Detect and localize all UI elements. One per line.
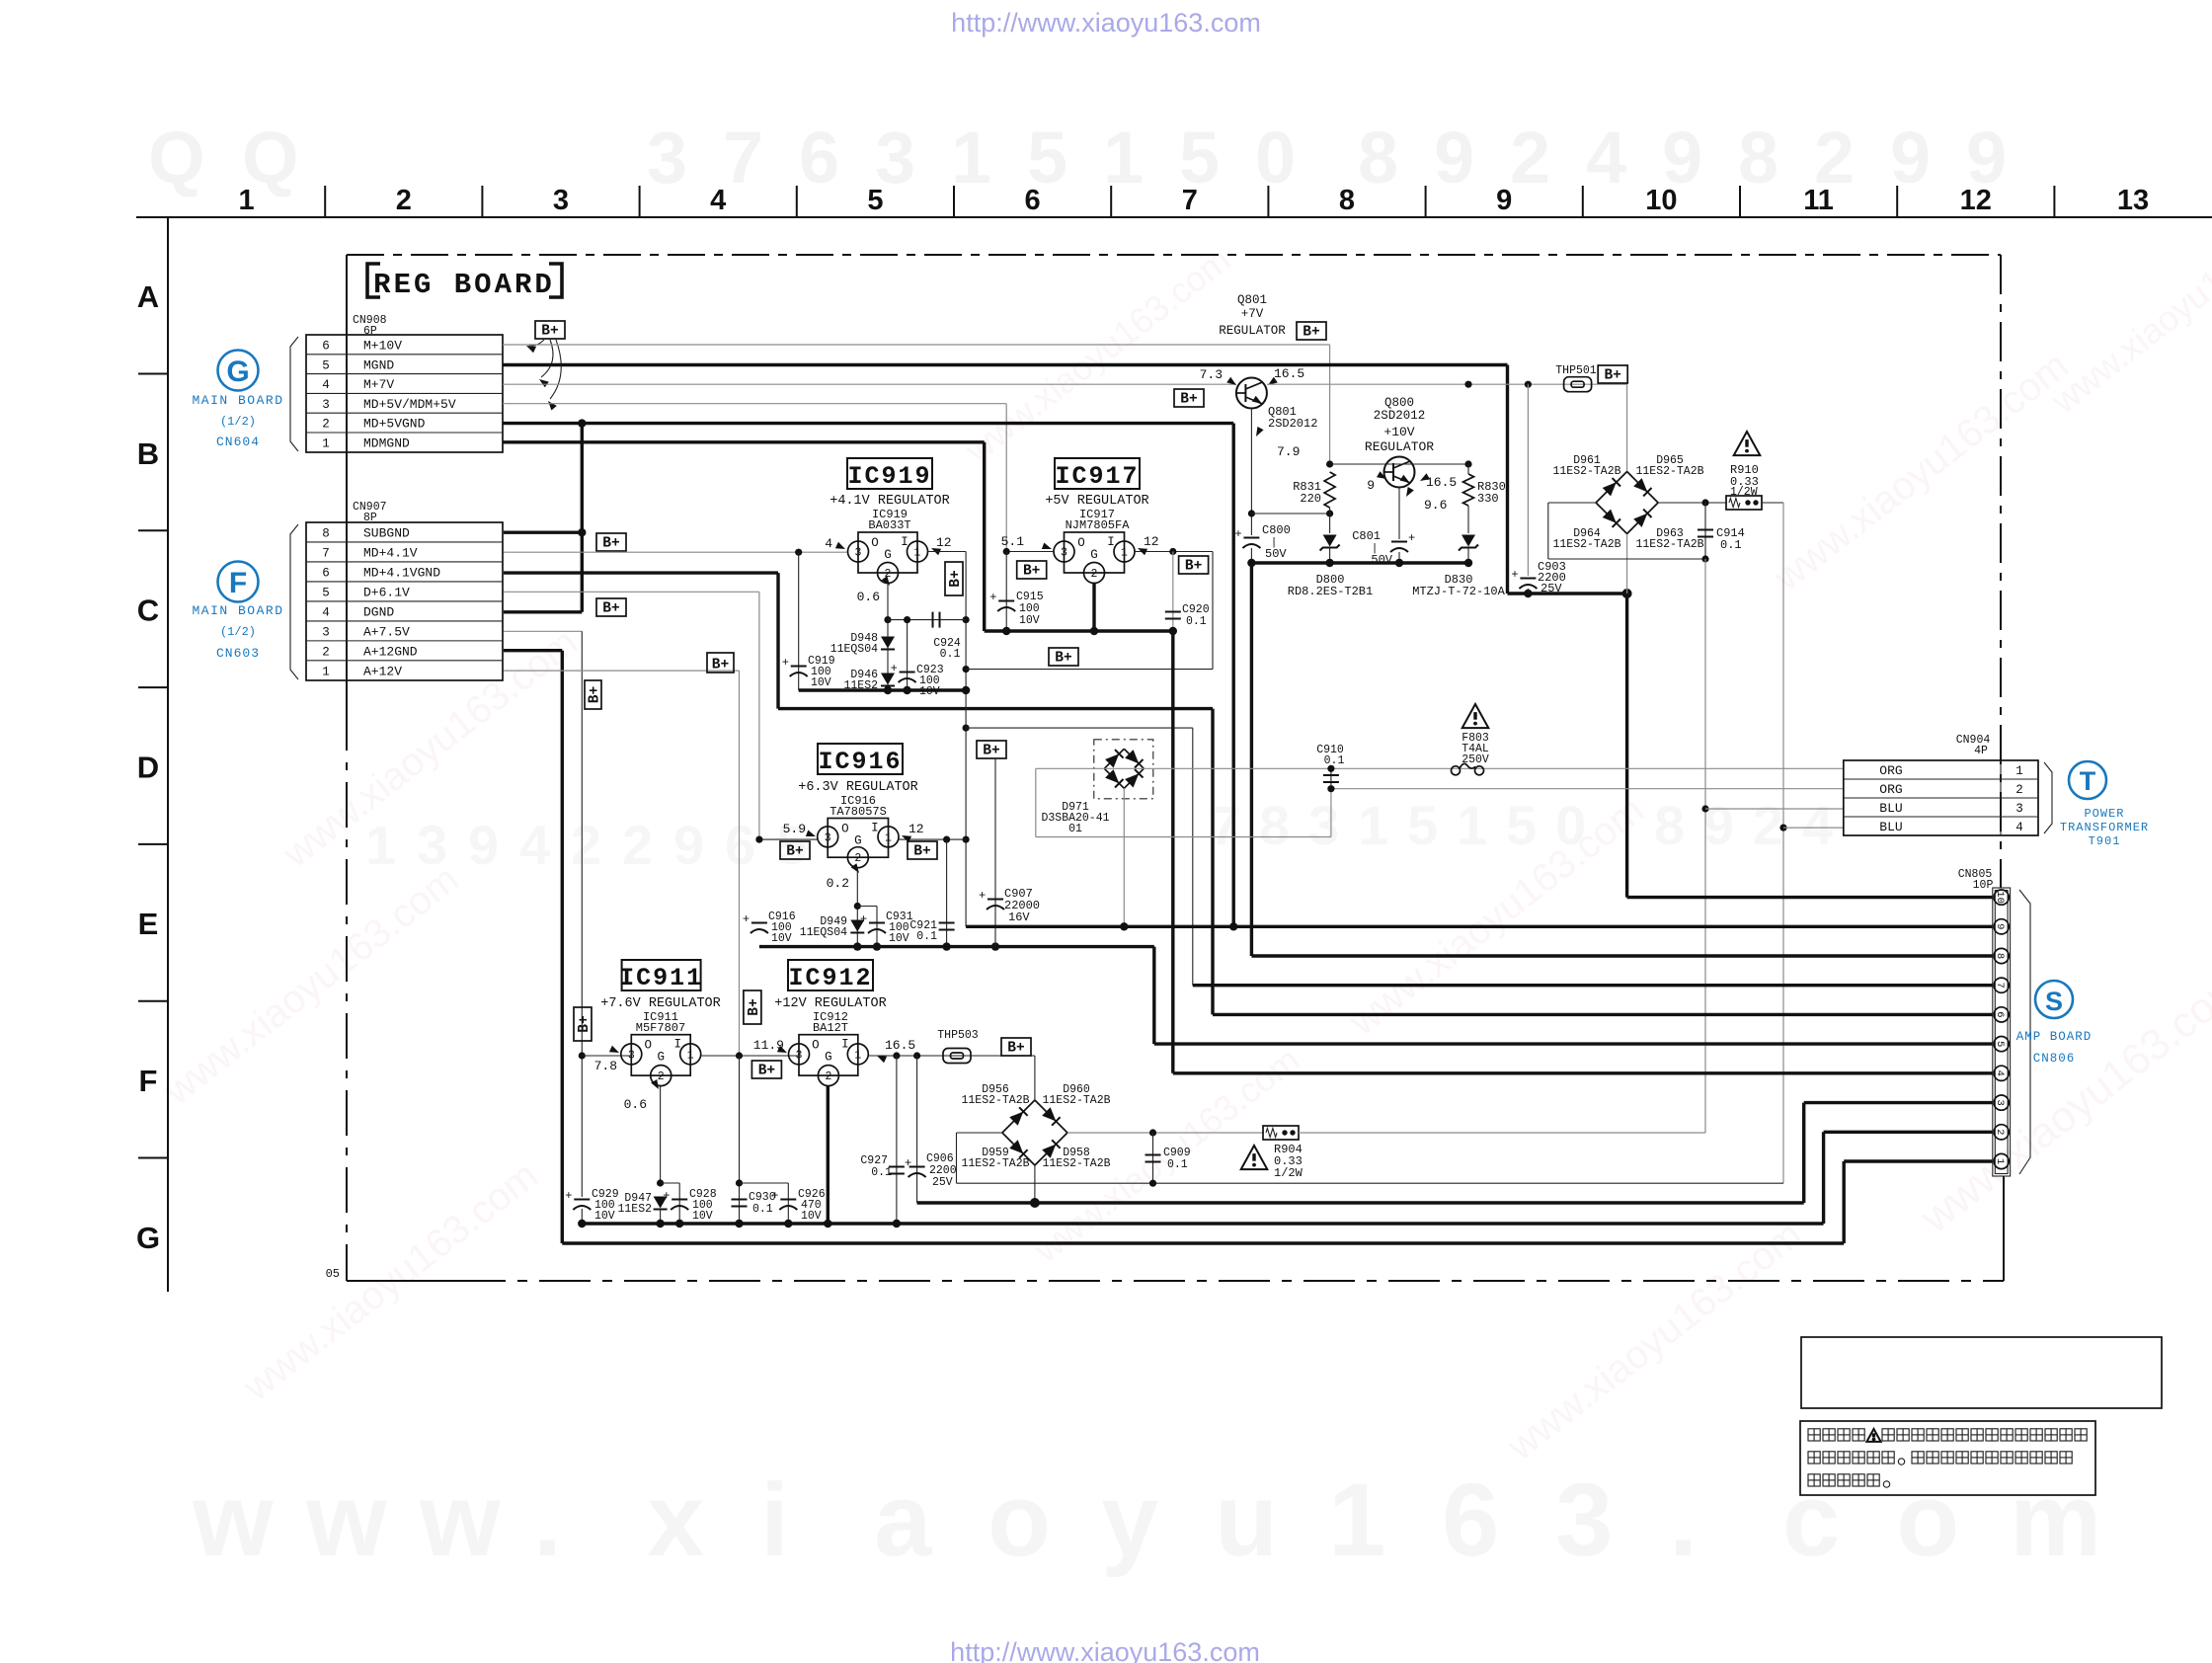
regulator IC919 block: [858, 532, 917, 573]
svg-text:7: 7: [1994, 983, 2006, 989]
svg-text:3: 3: [322, 626, 330, 640]
Q801 emitter net riser to pin8: [1250, 563, 1253, 956]
svg-text:MDMGND: MDMGND: [363, 436, 410, 451]
svg-text:REGULATOR: REGULATOR: [1219, 324, 1286, 338]
warning mark at F803: [1462, 704, 1489, 728]
svg-text:1: 1: [322, 437, 330, 451]
svg-text:B+: B+: [541, 324, 558, 340]
capacitor C800: [1243, 537, 1259, 539]
B+ label mid loop: [1049, 648, 1078, 666]
svg-text:6: 6: [1442, 1463, 1499, 1578]
svg-text:B+: B+: [1023, 564, 1040, 580]
svg-text:SUBGND: SUBGND: [363, 526, 410, 541]
svg-text:8: 8: [1994, 953, 2006, 959]
arrows from B+ label to wires: [528, 340, 544, 346]
svg-text:BA12T: BA12T: [813, 1021, 848, 1035]
Q800 emitter with C801: [1398, 488, 1400, 540]
GND line to pin6 net: [778, 707, 1213, 710]
svg-text:THP503: THP503: [937, 1029, 979, 1042]
B+ label left of IC917: [1017, 561, 1047, 579]
svg-text:0.2: 0.2: [827, 876, 849, 891]
wire A+12GND drop to bus C: [561, 651, 564, 1243]
svg-text:1: 1: [239, 185, 255, 216]
svg-text:I: I: [1107, 535, 1115, 549]
bridge rectifier D956 D960 D959 D958: [1002, 1100, 1035, 1133]
svg-text:0.1: 0.1: [916, 930, 937, 943]
ruler left line: [167, 217, 169, 1292]
svg-text:2: 2: [322, 418, 330, 432]
svg-text:1/2W: 1/2W: [1730, 486, 1758, 499]
capacitor C924: [932, 612, 934, 628]
svg-text:3: 3: [825, 831, 831, 844]
svg-text:2: 2: [1091, 568, 1098, 581]
svg-text:MGND: MGND: [363, 357, 394, 372]
svg-text:7.9: 7.9: [1277, 444, 1300, 459]
bus B ground: [582, 1222, 1823, 1225]
safety note chinese text line3: [1808, 1474, 1820, 1486]
safety note chinese text line2: [1808, 1452, 1820, 1464]
svg-text:A+12GND: A+12GND: [363, 645, 418, 660]
wire DGND: [504, 610, 582, 613]
decorative faint digits middle: [365, 794, 1833, 876]
IC919 pin2 wire: [887, 584, 889, 691]
IC919 ground bus: [799, 688, 966, 691]
svg-text:9.6: 9.6: [1424, 498, 1447, 513]
connector CN904 bracket: [2044, 762, 2052, 833]
svg-text:5: 5: [867, 185, 883, 216]
svg-text:+6.3V REGULATOR: +6.3V REGULATOR: [798, 780, 918, 795]
wire BLU3 row: [1705, 808, 1844, 810]
svg-text:+: +: [1408, 531, 1415, 545]
capacitor C931: [857, 906, 877, 908]
wire MD+5V: [503, 403, 1006, 405]
svg-text:11ES2-TA2B: 11ES2-TA2B: [1635, 465, 1703, 478]
svg-text:MTZJ-T-72-10A: MTZJ-T-72-10A: [1412, 585, 1505, 598]
fusible resistor R904: [1263, 1126, 1299, 1140]
wire D+6.1V: [504, 591, 759, 593]
riser x1727 C914 to D956 box line: [1704, 559, 1706, 1133]
REG BOARD border bottom dash-dot: [347, 1280, 454, 1282]
svg-text:+: +: [860, 912, 867, 926]
svg-text:(1/2): (1/2): [220, 625, 256, 639]
svg-text:+: +: [905, 1156, 911, 1170]
svg-text:2: 2: [322, 646, 330, 660]
capacitor C919: [798, 552, 800, 690]
svg-text:CN806: CN806: [2033, 1052, 2076, 1066]
wire MD+5V drop to IC917 input: [1005, 404, 1007, 552]
Q800 local ground bus: [1251, 561, 1468, 564]
svg-text:M+7V: M+7V: [363, 377, 394, 392]
wire MDMGND: [503, 440, 985, 443]
wire to CN805 pin1 from bus C: [1844, 1159, 1993, 1162]
svg-text:E: E: [138, 907, 159, 941]
D971 output drop to pin9 row: [1123, 788, 1125, 926]
wire MGND drop: [1506, 365, 1509, 594]
svg-text:+7.6V REGULATOR: +7.6V REGULATOR: [600, 996, 721, 1011]
svg-text:4: 4: [1586, 117, 1626, 198]
ruler top line: [136, 216, 2212, 218]
svg-text:2: 2: [2015, 783, 2023, 797]
svg-text:BA033T: BA033T: [868, 518, 910, 532]
wire THP501 to bridge D961: [1626, 384, 1628, 471]
svg-text:O: O: [644, 1039, 652, 1053]
svg-text:10: 10: [1645, 185, 1677, 216]
wire to CN805 pin10: [1627, 896, 1993, 899]
svg-text:2: 2: [854, 852, 861, 865]
svg-text:1: 1: [1457, 794, 1487, 856]
svg-text:F: F: [229, 567, 247, 599]
ruler row ticks: [138, 373, 168, 375]
wire to CN805 pin9: [966, 925, 1993, 928]
svg-text:A+7.5V: A+7.5V: [363, 625, 410, 640]
svg-text:BLU: BLU: [1879, 801, 1902, 816]
svg-text:9: 9: [1994, 923, 2006, 929]
wire BLU4 row: [1783, 827, 1844, 829]
svg-text:1: 1: [2015, 764, 2023, 778]
svg-text:MD+5VGND: MD+5VGND: [363, 417, 426, 432]
svg-text:6: 6: [1025, 185, 1041, 216]
wire to CN805 pin5: [1154, 1042, 1993, 1045]
connector CN805 body: [1993, 888, 2011, 1176]
svg-text:5: 5: [1407, 794, 1438, 856]
svg-text:u: u: [1215, 1463, 1278, 1578]
svg-text:O: O: [841, 823, 849, 836]
B+ label near CN908: [535, 321, 565, 339]
svg-text:12: 12: [908, 822, 924, 836]
svg-text:1: 1: [687, 1049, 694, 1062]
transistor Q801: [1236, 378, 1267, 409]
svg-text:1: 1: [914, 547, 921, 560]
wire MD+4.1VGND drop: [776, 573, 779, 709]
B+ label left of Q801: [1174, 389, 1204, 407]
svg-text:IC919: IC919: [847, 462, 931, 491]
IC916 gnd jog to pin5 net: [1152, 947, 1155, 1045]
svg-text:4: 4: [519, 814, 550, 876]
wire MDMGND drop: [983, 442, 986, 631]
bus C: [562, 1241, 1844, 1244]
IC912 title box: [788, 960, 873, 990]
B+ vertical label left of IC912: [744, 990, 761, 1024]
IC919 title box: [847, 458, 932, 489]
svg-text:G: G: [136, 1221, 160, 1255]
svg-text:12: 12: [936, 535, 952, 550]
svg-text:1: 1: [951, 117, 991, 198]
IC917 gnd riser to pin4 net: [1171, 631, 1174, 1073]
decorative pink diagonal watermarks: [156, 190, 2212, 1469]
svg-text:9: 9: [1890, 117, 1931, 198]
svg-text:10V: 10V: [1019, 614, 1040, 627]
capacitor C910: [1330, 768, 1332, 788]
svg-text:5.9: 5.9: [783, 822, 806, 836]
svg-text:+: +: [782, 656, 789, 670]
svg-text:http://www.xiaoyu163.com: http://www.xiaoyu163.com: [950, 1637, 1260, 1663]
svg-text:1: 1: [1358, 794, 1388, 856]
svg-text:A: A: [137, 279, 159, 314]
svg-text:11EQS04: 11EQS04: [800, 926, 847, 939]
svg-text:2: 2: [658, 1070, 665, 1083]
svg-text:w: w: [192, 1463, 274, 1578]
svg-text:MAIN BOARD: MAIN BOARD: [192, 393, 283, 408]
svg-text:8: 8: [1738, 117, 1778, 198]
IC911 to IC912 wire: [701, 1055, 799, 1057]
B+ label after THP501: [1598, 365, 1627, 383]
IC916 title box: [818, 744, 903, 774]
svg-text:50V: 50V: [1265, 547, 1287, 561]
svg-text:+: +: [1511, 568, 1518, 582]
svg-text:B: B: [137, 436, 159, 471]
wire to CN805 pin7: [1193, 984, 1993, 987]
svg-text:12: 12: [1960, 185, 1992, 216]
svg-text:0.1: 0.1: [871, 1166, 892, 1179]
diode D947: [654, 1197, 668, 1209]
svg-text:7.3: 7.3: [1200, 367, 1223, 382]
svg-text:1: 1: [1328, 1463, 1385, 1578]
bridge D956 bottom to bus A: [1034, 1165, 1036, 1203]
svg-text:B+: B+: [1303, 325, 1319, 341]
B+ label right of IC917: [1179, 556, 1209, 574]
wire to CN805 pin2 from bus B: [1824, 1131, 1993, 1134]
svg-text:0.6: 0.6: [624, 1097, 647, 1112]
REG BOARD border top dash-dot: [347, 254, 2001, 256]
B+ vertical label on riser: [585, 680, 601, 709]
IC912 output wire: [868, 1055, 1035, 1057]
svg-text:0.1: 0.1: [752, 1203, 773, 1216]
svg-text:C800: C800: [1262, 523, 1291, 537]
svg-text:8: 8: [322, 527, 330, 541]
decorative faint digits top: [148, 117, 2007, 198]
wire MD+5VGND drop to pin9 net: [1231, 424, 1234, 927]
svg-text:9: 9: [1367, 478, 1375, 493]
regulator IC917 block: [1065, 532, 1125, 573]
svg-text:3: 3: [855, 547, 862, 560]
bridge D971 dash-dot outline: [1094, 740, 1153, 799]
svg-text:m: m: [2010, 1463, 2101, 1578]
svg-text:2SD2012: 2SD2012: [1268, 417, 1317, 431]
svg-text:G: G: [226, 356, 249, 388]
svg-text:9: 9: [468, 814, 499, 876]
svg-text:1: 1: [322, 666, 330, 679]
wire to CN805 pin3 from bus A: [1804, 1101, 1993, 1104]
svg-text:2: 2: [1994, 1129, 2006, 1135]
svg-text:POWER: POWER: [2084, 807, 2124, 821]
svg-text:1: 1: [365, 814, 396, 876]
bridge AC loop wires: [1548, 502, 1596, 504]
svg-text:G: G: [884, 548, 892, 562]
svg-text:+: +: [1234, 527, 1241, 541]
svg-text:9: 9: [673, 814, 704, 876]
capacitor C906: [916, 1056, 918, 1203]
wire to CN805 pin8: [1251, 954, 1992, 957]
svg-text:A+12V: A+12V: [363, 665, 402, 679]
IC911 input wire: [582, 1055, 630, 1057]
svg-text:10: 10: [1994, 891, 2006, 904]
svg-text:DGND: DGND: [363, 605, 394, 620]
svg-text:0.1: 0.1: [1167, 1158, 1188, 1171]
svg-text:B+: B+: [983, 744, 999, 759]
svg-text:6: 6: [799, 117, 839, 198]
svg-text:B+: B+: [747, 998, 762, 1015]
capacitor C916: [751, 922, 767, 924]
wire A+12V: [504, 670, 740, 672]
wire M+10V drop: [1329, 345, 1331, 464]
REG BOARD border right dash-dot: [2000, 255, 2002, 888]
wire D+6.1V drop to IC916 input: [758, 592, 760, 839]
capacitor C926: [736, 1179, 743, 1186]
svg-text:16.5: 16.5: [885, 1038, 915, 1053]
IC916 pin2 wire: [856, 868, 858, 947]
connector CN904 box: [1844, 760, 2038, 835]
svg-text:0.1: 0.1: [940, 648, 961, 661]
svg-text:MD+5V/MDM+5V: MD+5V/MDM+5V: [363, 397, 456, 412]
B+ label right of THP503: [1001, 1038, 1031, 1056]
svg-text:3: 3: [1061, 547, 1067, 560]
bus A: [917, 1201, 1804, 1204]
svg-text:4: 4: [825, 536, 832, 551]
warning mark at R910: [1734, 432, 1761, 455]
svg-text:10V: 10V: [771, 932, 792, 945]
diode D949: [850, 920, 864, 932]
svg-text:i: i: [760, 1463, 789, 1578]
capacitor C915: [1005, 552, 1007, 632]
line to pin7 net: [966, 727, 1193, 729]
svg-text:C801: C801: [1352, 529, 1381, 543]
wire MD+4.1V to IC919: [504, 551, 848, 553]
svg-text:3: 3: [1308, 794, 1339, 856]
svg-text:4P: 4P: [1974, 745, 1988, 757]
svg-text:AMP BOARD: AMP BOARD: [2016, 1030, 2093, 1044]
IC916 input wire: [759, 838, 818, 840]
svg-text:I: I: [673, 1038, 681, 1052]
svg-text:M5F7807: M5F7807: [636, 1021, 685, 1035]
svg-text:B+: B+: [1055, 651, 1071, 667]
wire MD+4.1VGND: [504, 571, 778, 574]
svg-text:IC917: IC917: [1055, 462, 1139, 491]
safety note chinese text line1: [1808, 1429, 1820, 1441]
IC911 title box: [622, 960, 701, 990]
svg-text:REGULATOR: REGULATOR: [1365, 439, 1434, 454]
svg-text:8: 8: [1358, 117, 1398, 198]
svg-text:01: 01: [1068, 823, 1082, 835]
svg-text:2: 2: [571, 814, 601, 876]
GND riser x589: [581, 424, 584, 612]
svg-text:5: 5: [322, 587, 330, 600]
svg-text:REG BOARD: REG BOARD: [373, 269, 555, 301]
IC912 pin2 wire thick: [827, 1086, 829, 1224]
svg-text:3: 3: [1994, 1099, 2006, 1105]
svg-text:T901: T901: [2089, 834, 2121, 848]
svg-text:10V: 10V: [811, 676, 831, 689]
B+ label at SUBGND junction: [596, 533, 626, 551]
capacitor C907: [994, 758, 996, 947]
svg-text:+12V REGULATOR: +12V REGULATOR: [774, 996, 886, 1011]
svg-text:9: 9: [1496, 185, 1512, 216]
svg-text:CN604: CN604: [216, 435, 260, 449]
safety note box: [1800, 1421, 2095, 1495]
svg-text:NJM7805FA: NJM7805FA: [1066, 518, 1131, 532]
MGND net riser to pin10: [1625, 594, 1628, 898]
svg-text:x: x: [647, 1463, 704, 1578]
svg-text:4: 4: [322, 378, 330, 392]
IC917 input wire: [1006, 551, 1054, 553]
svg-text:B+: B+: [1604, 368, 1620, 384]
capacitor C903: [1527, 384, 1529, 576]
wire MGND: [503, 363, 1508, 366]
svg-text:11ES2-TA2B: 11ES2-TA2B: [1552, 538, 1620, 551]
svg-text:11ES2-TA2B: 11ES2-TA2B: [1635, 538, 1703, 551]
svg-text:BLU: BLU: [1879, 820, 1902, 834]
B+ loop IC919 to IC917: [966, 669, 1213, 671]
wire to CN805 pin4: [1173, 1071, 1993, 1074]
B+ third label: [707, 653, 734, 673]
capacitor C928: [661, 1182, 680, 1184]
svg-text:+5V REGULATOR: +5V REGULATOR: [1045, 494, 1148, 509]
border segment below CN805: [2003, 1176, 2005, 1281]
wire ORG2 row: [1331, 788, 1844, 790]
svg-text:10V: 10V: [801, 1210, 822, 1223]
svg-text:3: 3: [1555, 1463, 1613, 1578]
svg-text:+: +: [891, 662, 898, 675]
svg-text:11ES2-TA2B: 11ES2-TA2B: [1042, 1157, 1110, 1170]
regulator IC912 block: [799, 1035, 858, 1075]
svg-text:10V: 10V: [594, 1210, 615, 1223]
B+ vertical label IC919 output: [945, 562, 963, 595]
Q801 emitter wire: [1250, 409, 1252, 536]
connector CN805 pins: [1994, 890, 2009, 905]
svg-text:MAIN BOARD: MAIN BOARD: [192, 603, 283, 618]
connector CN907 box: [306, 522, 503, 680]
connector CN907 bracket: [290, 524, 298, 679]
svg-text:6P: 6P: [363, 325, 377, 338]
svg-text:+: +: [771, 1189, 778, 1203]
MGND bus segment: [1508, 592, 1627, 594]
svg-text:4: 4: [322, 606, 330, 620]
svg-text:10V: 10V: [692, 1210, 713, 1223]
IC911 pin2 wire: [660, 1086, 662, 1183]
IC916 ground bus: [759, 945, 1154, 948]
B+ label above C907: [977, 741, 1006, 758]
wire A+12GND: [504, 649, 562, 652]
svg-text:.: .: [1669, 1463, 1698, 1578]
svg-text:3: 3: [2015, 802, 2023, 816]
svg-text:0.1: 0.1: [1720, 538, 1742, 552]
svg-text:B+: B+: [1007, 1041, 1024, 1057]
diode D948: [881, 637, 895, 649]
ref F MAIN BOARD CN603: [218, 562, 259, 602]
svg-text:G: G: [657, 1051, 665, 1065]
svg-text:13: 13: [2117, 185, 2149, 216]
svg-text:2: 2: [1753, 794, 1783, 856]
svg-text:w: w: [419, 1463, 501, 1578]
svg-text:THP501: THP501: [1555, 364, 1597, 377]
svg-text:11ES2: 11ES2: [617, 1203, 652, 1216]
svg-text:F: F: [139, 1064, 158, 1098]
svg-text:Q: Q: [148, 117, 205, 198]
wire SUBGND: [504, 531, 582, 534]
svg-text:8: 8: [1654, 794, 1685, 856]
svg-text:4: 4: [2015, 821, 2023, 834]
regulator IC916 block: [828, 819, 888, 858]
svg-text:+7V: +7V: [1241, 307, 1264, 321]
R910 wire to riser: [1762, 502, 1783, 504]
svg-text:7: 7: [322, 547, 330, 561]
B+ label below 11.9: [751, 1061, 781, 1078]
notes empty box: [1801, 1337, 2162, 1408]
svg-text:.: .: [533, 1463, 562, 1578]
svg-text:o: o: [987, 1463, 1051, 1578]
svg-text:5: 5: [1994, 1041, 2006, 1047]
svg-text:B+: B+: [948, 570, 964, 587]
B+ vertical label left of IC911: [574, 1007, 592, 1041]
